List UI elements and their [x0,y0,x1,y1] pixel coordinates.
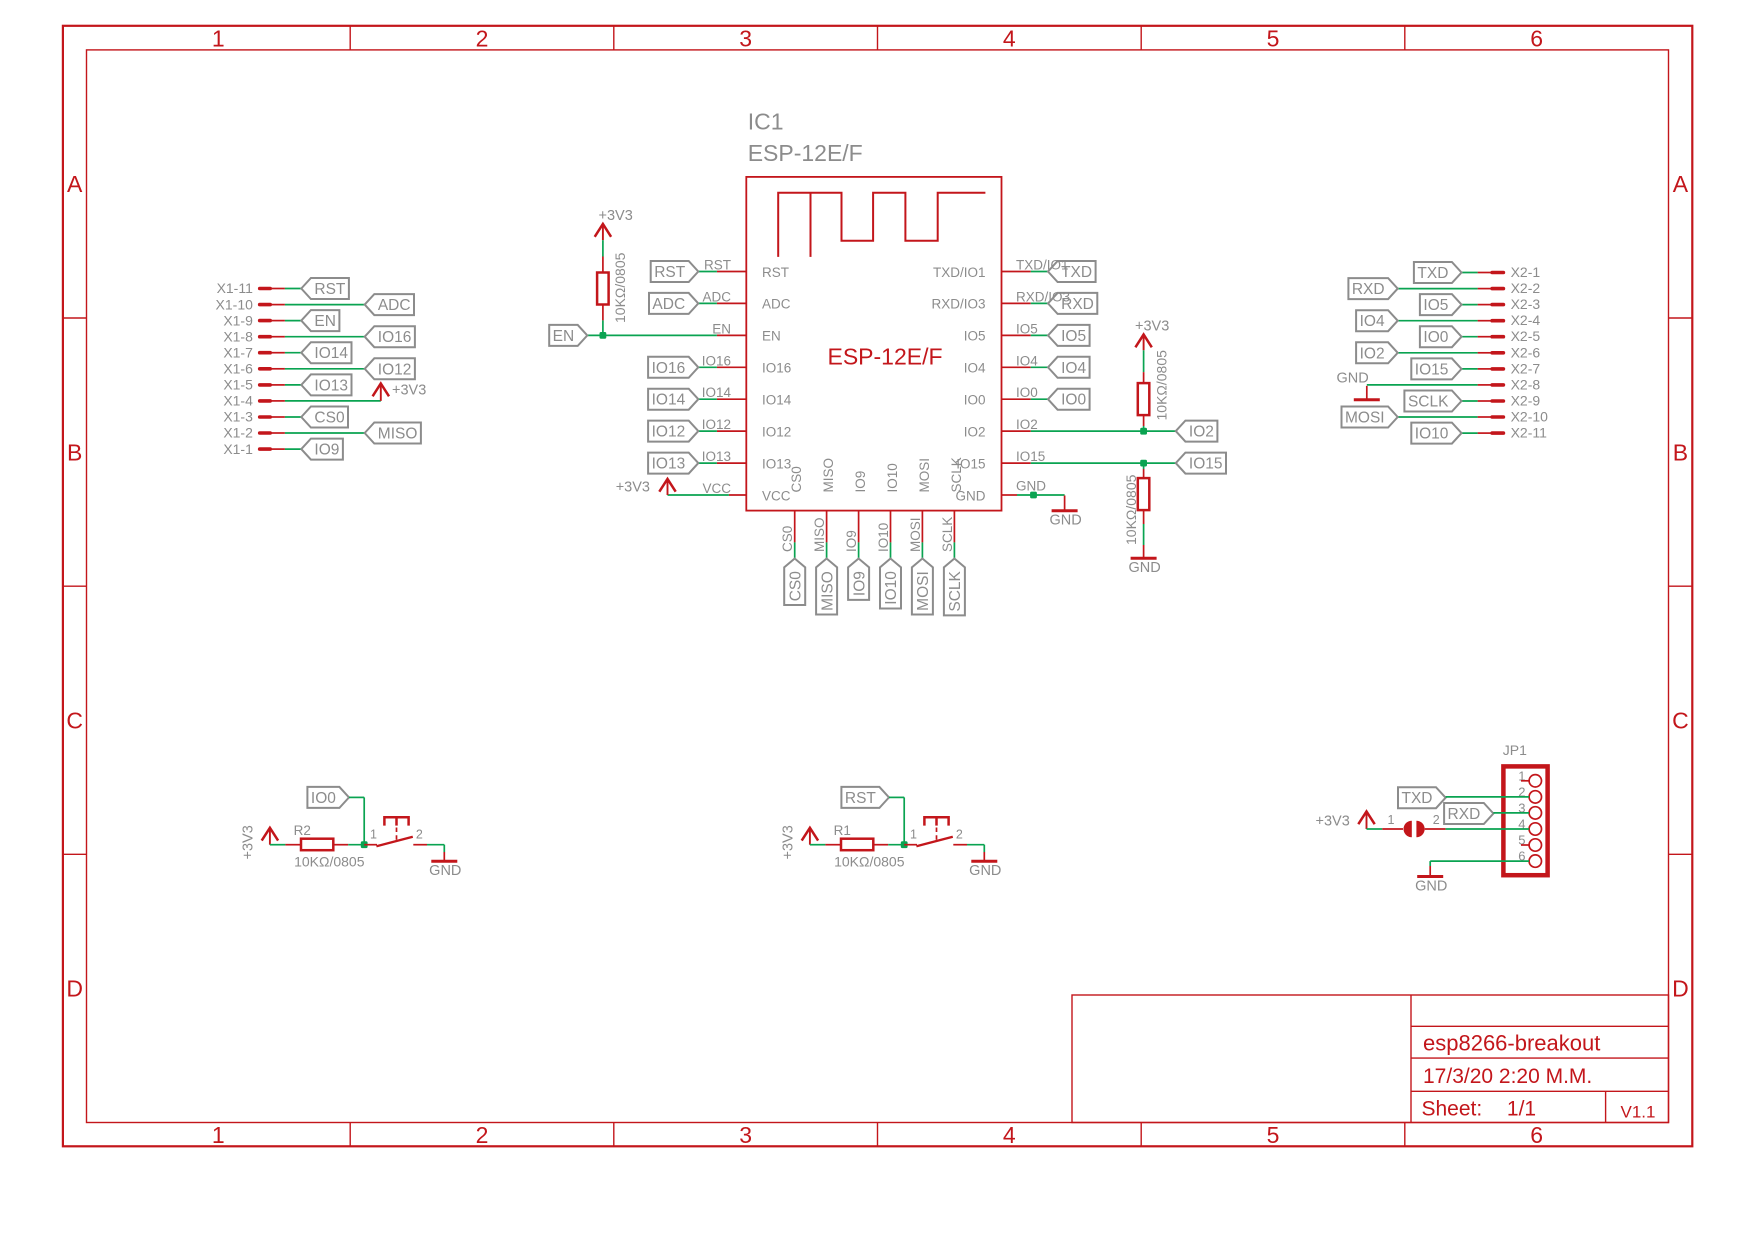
svg-text:2: 2 [476,25,489,51]
svg-text:X2-9: X2-9 [1511,393,1541,409]
svg-text:X1-8: X1-8 [223,328,253,344]
svg-text:ESP-12E/F: ESP-12E/F [748,140,863,166]
svg-text:RXD/IO3: RXD/IO3 [931,297,985,312]
svg-text:IO12: IO12 [652,424,686,441]
svg-text:Sheet:: Sheet: [1422,1097,1483,1120]
svg-text:IO12: IO12 [378,361,412,378]
svg-text:MISO: MISO [819,571,836,611]
svg-text:ADC: ADC [762,297,791,312]
svg-text:TXD: TXD [1061,264,1092,281]
svg-text:X2-7: X2-7 [1511,360,1541,376]
svg-text:GND: GND [1049,513,1081,529]
svg-text:IO14: IO14 [314,345,348,362]
svg-text:C: C [1672,708,1689,734]
svg-text:EN: EN [712,321,731,336]
svg-text:IO2: IO2 [1016,417,1038,432]
svg-text:X1-3: X1-3 [223,409,253,425]
svg-text:IO12: IO12 [702,417,731,432]
svg-text:X2-6: X2-6 [1511,344,1541,360]
svg-text:+3V3: +3V3 [599,208,633,224]
svg-text:ADC: ADC [652,296,685,313]
svg-text:D: D [1672,976,1689,1002]
svg-text:IO4: IO4 [964,361,986,376]
svg-text:2: 2 [416,828,423,842]
svg-text:1: 1 [212,1122,225,1148]
svg-text:IO16: IO16 [378,329,412,346]
svg-text:GND: GND [1128,560,1160,576]
svg-text:IO15: IO15 [1016,449,1045,464]
svg-text:EN: EN [762,329,781,344]
svg-text:RST: RST [704,258,731,273]
svg-text:X2-11: X2-11 [1511,425,1548,441]
svg-text:X1-4: X1-4 [223,393,253,409]
svg-text:RXD: RXD [1061,296,1094,313]
svg-text:R2: R2 [294,823,311,838]
svg-text:10KΩ/0805: 10KΩ/0805 [1123,474,1139,545]
svg-text:10KΩ/0805: 10KΩ/0805 [1154,350,1170,421]
svg-text:IO14: IO14 [652,392,686,409]
svg-text:X1-6: X1-6 [223,361,253,377]
svg-text:X2-2: X2-2 [1511,280,1541,296]
svg-text:3: 3 [739,1122,752,1148]
svg-text:IO4: IO4 [1360,313,1385,330]
svg-text:IO16: IO16 [652,360,686,377]
svg-text:GND: GND [429,863,461,879]
svg-text:B: B [67,439,82,465]
svg-text:17/3/20 2:20 M.M.: 17/3/20 2:20 M.M. [1423,1065,1592,1088]
svg-text:TXD: TXD [1402,790,1433,807]
svg-text:10KΩ/0805: 10KΩ/0805 [834,854,905,870]
svg-text:X1-2: X1-2 [223,425,253,441]
svg-text:IO15: IO15 [1189,456,1223,473]
svg-text:A: A [1673,171,1689,197]
svg-text:IO10: IO10 [876,523,891,552]
svg-text:3: 3 [739,25,752,51]
svg-text:MOSI: MOSI [915,571,932,611]
svg-text:GND: GND [969,863,1001,879]
svg-text:IO13: IO13 [702,449,731,464]
svg-text:MISO: MISO [378,426,418,443]
svg-text:2: 2 [956,828,963,842]
svg-text:5: 5 [1267,1122,1280,1148]
svg-text:JP1: JP1 [1503,742,1527,758]
svg-text:RXD: RXD [1352,281,1385,298]
svg-text:IO16: IO16 [702,353,731,368]
svg-text:MISO: MISO [821,458,836,493]
svg-text:RST: RST [314,281,346,298]
svg-text:+3V3: +3V3 [392,383,426,399]
svg-text:CS0: CS0 [789,466,804,492]
svg-text:1: 1 [212,25,225,51]
svg-text:+3V3: +3V3 [241,825,257,859]
svg-text:CS0: CS0 [780,526,795,552]
svg-text:V1.1: V1.1 [1621,1103,1656,1122]
svg-text:R1: R1 [834,823,851,838]
svg-text:esp8266-breakout: esp8266-breakout [1423,1031,1600,1056]
svg-text:IO0: IO0 [1016,385,1038,400]
svg-text:IO2: IO2 [1189,424,1214,441]
svg-text:EN: EN [314,313,336,330]
svg-text:MOSI: MOSI [1345,410,1385,427]
svg-text:GND: GND [1415,879,1447,895]
svg-text:IO9: IO9 [844,530,859,552]
svg-text:IO5: IO5 [1423,297,1448,314]
svg-text:MISO: MISO [812,517,827,552]
svg-text:A: A [67,171,83,197]
svg-text:IO0: IO0 [311,790,336,807]
svg-text:IO5: IO5 [964,329,986,344]
svg-text:1: 1 [910,828,917,842]
svg-text:2: 2 [1433,813,1440,827]
svg-text:X2-3: X2-3 [1511,296,1541,312]
svg-text:+3V3: +3V3 [1135,319,1169,335]
svg-text:X1-7: X1-7 [223,344,253,360]
svg-text:IO12: IO12 [762,424,791,439]
svg-text:IO10: IO10 [1415,426,1449,443]
svg-text:1/1: 1/1 [1507,1097,1536,1120]
svg-text:MOSI: MOSI [917,458,932,493]
svg-text:CS0: CS0 [314,410,345,427]
svg-text:IO10: IO10 [883,571,900,605]
svg-text:C: C [66,708,83,734]
svg-text:ADC: ADC [378,297,411,314]
svg-text:IO16: IO16 [762,361,791,376]
svg-text:RST: RST [845,790,877,807]
svg-text:IO10: IO10 [885,463,900,492]
svg-text:IO2: IO2 [1360,345,1385,362]
svg-text:IO13: IO13 [762,456,791,471]
svg-text:D: D [66,976,83,1002]
svg-text:IO0: IO0 [1061,392,1086,409]
svg-text:B: B [1673,439,1688,465]
svg-text:10KΩ/0805: 10KΩ/0805 [294,854,365,870]
svg-text:IO4: IO4 [1016,353,1038,368]
svg-text:IO15: IO15 [1415,361,1449,378]
svg-text:+3V3: +3V3 [781,825,797,859]
svg-text:SCLK: SCLK [940,517,955,552]
svg-text:EN: EN [553,328,575,345]
svg-text:X1-11: X1-11 [217,280,254,296]
svg-text:IO9: IO9 [851,571,868,596]
svg-text:6: 6 [1530,1122,1543,1148]
svg-text:X1-5: X1-5 [223,377,253,393]
svg-text:10KΩ/0805: 10KΩ/0805 [612,252,628,323]
svg-text:SCLK: SCLK [949,457,964,492]
svg-text:X2-8: X2-8 [1511,376,1541,392]
svg-text:6: 6 [1530,25,1543,51]
svg-text:GND: GND [1016,479,1046,494]
svg-text:IO14: IO14 [702,385,732,400]
svg-text:2: 2 [476,1122,489,1148]
svg-text:1: 1 [370,828,377,842]
svg-text:IO4: IO4 [1061,360,1086,377]
svg-text:X2-5: X2-5 [1511,328,1541,344]
svg-text:VCC: VCC [702,481,731,496]
svg-text:IO2: IO2 [964,424,986,439]
svg-text:X1-10: X1-10 [216,296,254,312]
svg-text:TXD: TXD [1417,265,1448,282]
svg-text:X1-9: X1-9 [223,312,253,328]
svg-text:IC1: IC1 [748,109,784,135]
svg-text:4: 4 [1003,1122,1016,1148]
svg-text:IO0: IO0 [1423,329,1448,346]
svg-text:IO13: IO13 [314,377,348,394]
svg-text:4: 4 [1003,25,1016,51]
svg-text:IO5: IO5 [1016,321,1038,336]
svg-text:IO9: IO9 [853,471,868,493]
svg-text:IO0: IO0 [964,393,986,408]
svg-text:TXD/IO1: TXD/IO1 [933,265,986,280]
svg-text:IO14: IO14 [762,393,792,408]
svg-text:1: 1 [1388,813,1395,827]
svg-text:X1-1: X1-1 [223,441,253,457]
svg-text:+3V3: +3V3 [1316,814,1350,830]
svg-text:RXD: RXD [1448,806,1481,823]
svg-text:ESP-12E/F: ESP-12E/F [828,344,943,370]
svg-text:5: 5 [1267,25,1280,51]
svg-text:+3V3: +3V3 [616,480,650,496]
svg-text:ADC: ADC [702,289,731,304]
svg-text:MOSI: MOSI [908,517,923,552]
svg-text:VCC: VCC [762,488,791,503]
svg-text:X2-1: X2-1 [1511,264,1541,280]
svg-text:RST: RST [654,264,686,281]
svg-text:X2-10: X2-10 [1511,409,1549,425]
svg-text:RST: RST [762,265,789,280]
svg-text:X2-4: X2-4 [1511,312,1541,328]
svg-text:SCLK: SCLK [947,570,964,611]
svg-text:IO9: IO9 [314,442,339,459]
svg-text:CS0: CS0 [787,571,804,602]
svg-text:GND: GND [1336,370,1368,386]
svg-text:IO13: IO13 [652,456,686,473]
svg-text:IO5: IO5 [1061,328,1086,345]
svg-text:SCLK: SCLK [1408,394,1449,411]
